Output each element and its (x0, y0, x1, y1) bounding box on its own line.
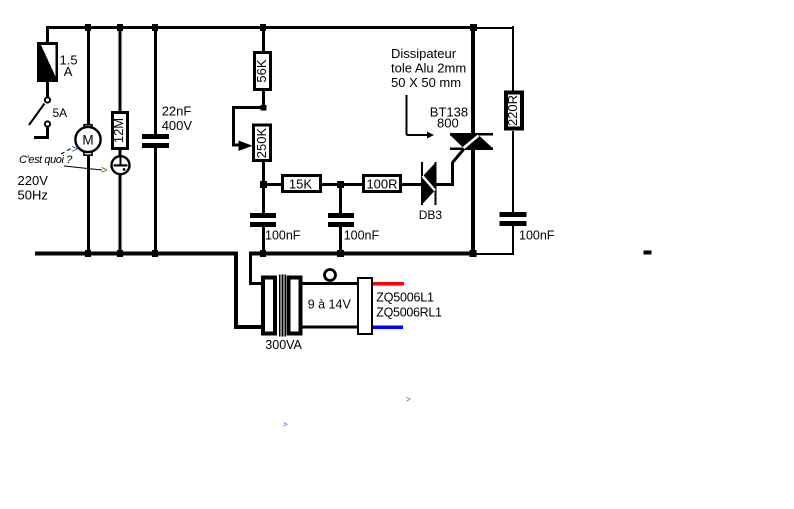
svg-text:ZQ5006L1: ZQ5006L1 (376, 291, 434, 305)
svg-text:50Hz: 50Hz (18, 188, 48, 203)
transformer T1 secondary (289, 278, 301, 334)
svg-text:400V: 400V (162, 118, 193, 133)
wire gate diagonal (453, 150, 464, 163)
wire blue output (373, 326, 403, 330)
svg-text:M: M (82, 133, 93, 148)
wire motor branch top (87, 26, 90, 124)
svg-text:>: > (72, 144, 78, 156)
wire pot wiper feedback (232, 106, 263, 147)
svg-text:>: > (406, 395, 411, 404)
svg-text:DB3: DB3 (419, 208, 443, 222)
wire 220R to cap3 (512, 131, 514, 212)
motor M (75, 125, 100, 156)
diac DB3 (421, 162, 437, 205)
svg-text:12M: 12M (111, 118, 126, 143)
wire fuse to switch (46, 82, 49, 97)
potentiometer wiper arrow (239, 141, 253, 152)
wire fuse branch top (46, 26, 49, 43)
svg-text:100nF: 100nF (344, 229, 380, 243)
capacitor C2 100nF (middle) (328, 186, 354, 253)
node bottom-bus junction 22nF (152, 250, 158, 257)
transformer T1 primary (263, 278, 275, 334)
wire mid line 15K to 100R (322, 183, 363, 186)
wire 12M to lamp (119, 150, 122, 156)
wire switch to open stub (34, 127, 49, 139)
resistor 220R (505, 93, 522, 129)
node top-bus junction 56K (260, 24, 266, 31)
capacitor 22nF 400V (142, 134, 169, 148)
node bottom-bus junction C1 (260, 250, 266, 257)
svg-text:22nF: 22nF (162, 104, 192, 119)
svg-text:50 X 50 mm: 50 X 50 mm (391, 75, 461, 90)
wire secondary top (302, 282, 357, 285)
node mid-line junction pot (260, 181, 267, 188)
node pot-top junction (261, 105, 267, 111)
svg-text:tole Alu 2mm: tole Alu 2mm (391, 61, 466, 76)
svg-text:100nF: 100nF (519, 229, 555, 243)
wire 22nF branch top (154, 26, 157, 134)
svg-text:A: A (64, 64, 73, 79)
label BT138 800 (430, 105, 468, 131)
svg-text:800: 800 (437, 116, 459, 131)
svg-text:C'est quoi ?: C'est quoi ? (19, 154, 73, 166)
wire lamp branch bottom (119, 174, 122, 253)
wire secondary bottom (302, 326, 357, 329)
svg-text:100R: 100R (366, 177, 397, 192)
potentiometer 250K (254, 125, 271, 161)
node top-bus junction 12M (117, 24, 123, 31)
wire diac to gate elbow (436, 183, 453, 186)
node top-bus junction motor (85, 24, 91, 31)
svg-text:15K: 15K (289, 176, 312, 191)
stray dash mark (644, 251, 652, 255)
svg-text:5A: 5A (53, 106, 68, 120)
wire motor branch bottom (87, 155, 90, 253)
triac BT138 (450, 133, 493, 150)
wire red output (373, 282, 404, 286)
resistor 15K (283, 176, 321, 192)
annotation dashed arrow to motor (61, 144, 78, 156)
transformer core (279, 275, 286, 337)
svg-text:9 à 14V: 9 à 14V (308, 298, 352, 312)
wire gate vertical (451, 162, 454, 186)
svg-text:ZQ5006RL1: ZQ5006RL1 (376, 306, 442, 320)
wire 100R to diac (402, 183, 421, 186)
node bottom-bus junction triac (470, 250, 477, 257)
wire 22nF branch bottom (154, 148, 157, 253)
wire bottom bus right (249, 252, 473, 256)
node bottom-bus junction C2 (337, 250, 344, 257)
loop on secondary wire (325, 270, 336, 281)
wire 220R branch top (512, 26, 514, 91)
node top-bus junction triac (470, 24, 477, 31)
node mid-line junction cap2 (337, 181, 344, 188)
label 22nF 400V (162, 104, 193, 134)
connector block (358, 278, 372, 334)
label 220V 50Hz (18, 173, 49, 203)
node top-bus junction 22nF (152, 24, 158, 31)
svg-text:300VA: 300VA (265, 338, 302, 352)
wire thin bottom extension (473, 253, 514, 255)
node bottom-bus junction motor (85, 250, 91, 257)
annotation arrow to lamp (64, 165, 107, 177)
wire 56K branch top (262, 26, 265, 52)
wire bus-left corner down to primary (234, 252, 263, 330)
label fuse value 1.5 A (60, 53, 78, 80)
resistor 12M (111, 113, 128, 149)
svg-text:100nF: 100nF (265, 229, 301, 243)
fuse F1 (37, 42, 58, 82)
wire bottom bus left (35, 252, 238, 256)
wire cap3 to bottom (512, 226, 514, 254)
svg-text:>: > (283, 420, 288, 429)
svg-text:>: > (101, 165, 107, 177)
wire triac main vertical top (471, 26, 475, 133)
annotation pointer to triac (407, 95, 435, 139)
capacitor C1 100nF (left) (250, 186, 276, 253)
wire bus-right drop to primary top (249, 252, 262, 285)
svg-text:Dissipateur: Dissipateur (391, 46, 457, 61)
node bottom-bus junction lamp (117, 250, 123, 257)
wire 56K to pot junction (262, 91, 265, 108)
wire pot bottom to mid line (262, 162, 265, 186)
wire 12M branch top (119, 26, 122, 112)
resistor 56K (254, 53, 271, 90)
svg-text:250K: 250K (254, 127, 269, 158)
svg-text:56K: 56K (254, 59, 269, 82)
wire top bus (46, 26, 474, 29)
switch S1 5A (29, 97, 50, 126)
svg-text:220V: 220V (18, 173, 49, 188)
label Dissipateur note (391, 46, 466, 90)
capacitor C3 100nF (right) (500, 212, 527, 226)
wire thin top extension to 220R branch (473, 27, 514, 29)
wire mid line pot to 15K (262, 183, 283, 186)
lamp (neon) DS1 (112, 156, 130, 174)
wire triac main vertical bottom (471, 150, 475, 255)
svg-text:220R: 220R (505, 95, 520, 126)
resistor 100R (364, 176, 401, 192)
